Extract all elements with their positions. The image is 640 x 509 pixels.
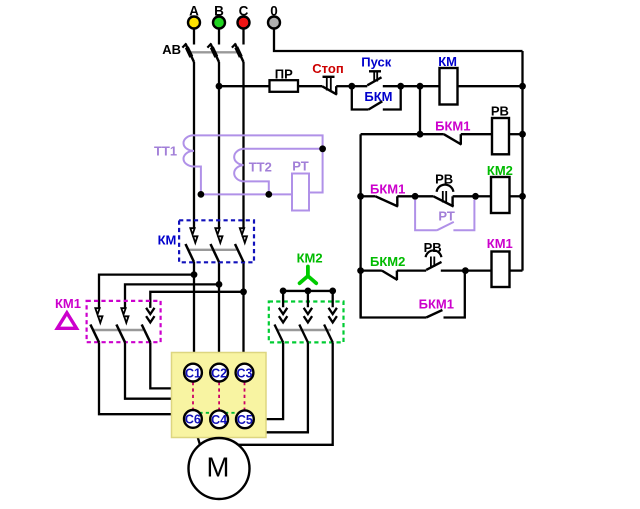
wire rung3 to KM2 coil xyxy=(476,195,492,197)
wire KM coil to rail xyxy=(458,85,523,87)
node TT1 bottom junction xyxy=(198,191,205,198)
wire rung2 left extension xyxy=(361,133,420,135)
wire stub B xyxy=(218,29,220,45)
wire KM1 coil to rail xyxy=(510,269,523,271)
terminal B xyxy=(213,4,225,29)
circuit breaker AB xyxy=(162,42,243,62)
star symbol KM2 xyxy=(297,251,323,284)
terminal C4 xyxy=(210,410,228,428)
timed contact RV rung4 xyxy=(424,240,466,271)
terminal box xyxy=(172,353,267,438)
motor M xyxy=(189,438,250,499)
wire fuse to stop xyxy=(298,85,322,87)
wire TT2 secondary bottom xyxy=(244,181,269,194)
wire KM2 pole2 to C4 xyxy=(223,342,308,432)
wire stub C xyxy=(242,29,244,45)
svg-text:БКМ1: БКМ1 xyxy=(435,119,470,134)
link C3-C5 xyxy=(244,382,246,410)
wire KM1 pole1 to C6 xyxy=(99,342,184,414)
svg-text:С2: С2 xyxy=(211,366,227,380)
wire TT1 secondary bottom xyxy=(194,167,201,195)
wire phase A vertical xyxy=(193,62,195,364)
svg-text:КМ2: КМ2 xyxy=(297,251,323,266)
node TT2 bottom junction xyxy=(265,191,272,198)
link C2-C4 xyxy=(218,382,220,410)
auxiliary contact BKM1 bypass xyxy=(361,271,465,318)
svg-text:С5: С5 xyxy=(237,413,253,427)
wire KM2 pole1 to C5 xyxy=(254,342,283,419)
wire TT2 secondary top xyxy=(244,148,323,150)
svg-text:ТТ1: ТТ1 xyxy=(154,144,177,159)
svg-text:С3: С3 xyxy=(237,366,253,380)
node left rail rung3 xyxy=(357,193,364,200)
node rung3 right of RV contact xyxy=(472,193,479,200)
wire RV coil to rail xyxy=(509,133,523,135)
terminal C6 xyxy=(184,410,202,428)
wire tap to fuse xyxy=(219,85,270,87)
wire TT1 secondary top xyxy=(194,135,323,148)
wire star bus xyxy=(283,290,333,292)
svg-text:КМ2: КМ2 xyxy=(487,163,513,178)
svg-text:С4: С4 xyxy=(211,413,227,427)
svg-text:РВ: РВ xyxy=(491,104,509,119)
wire rung1 to rung2 xyxy=(419,86,421,134)
pushbutton Start (Pusk) xyxy=(352,55,401,87)
wire neutral 0 to right rail xyxy=(274,29,523,51)
wire to KM coil xyxy=(401,85,440,87)
wire phase A to KM1 pole1 xyxy=(99,275,194,308)
node star bus pole2 xyxy=(305,288,312,295)
wire KM1 pole3 to C5 xyxy=(150,342,244,408)
terminal C5 xyxy=(236,410,254,428)
coil KM2 xyxy=(487,163,513,213)
wire PT right lead xyxy=(309,149,323,193)
timed contact RV rung3 xyxy=(415,171,475,206)
svg-text:С1: С1 xyxy=(185,366,201,380)
wire phase B vertical xyxy=(218,62,220,364)
auxiliary contact BKM1 rung3 xyxy=(361,182,416,207)
svg-text:КМ: КМ xyxy=(158,233,177,248)
terminal 0 xyxy=(268,4,280,29)
node star bus pole3 xyxy=(329,288,336,295)
node phase B tap xyxy=(216,281,223,288)
wire KM2 coil to rail xyxy=(510,195,523,197)
terminal C3 xyxy=(236,364,254,382)
coil KM1 xyxy=(487,236,513,287)
contactor KM1 delta contacts xyxy=(55,296,161,342)
thermal relay coil PT xyxy=(292,159,309,211)
node star bus pole1 xyxy=(280,288,287,295)
svg-text:М: М xyxy=(207,452,230,483)
auxiliary contact BKM1 rung2 xyxy=(420,119,492,145)
wire rung4 to KM1 coil xyxy=(465,269,491,271)
node CT junction xyxy=(319,145,326,152)
svg-text:КМ: КМ xyxy=(438,54,457,69)
svg-text:Пуск: Пуск xyxy=(361,55,391,70)
wire phase C vertical xyxy=(242,62,244,364)
wire CT secondary bus xyxy=(201,193,292,195)
svg-text:РТ: РТ xyxy=(438,209,454,224)
auxiliary contact BKM2 rung4 xyxy=(361,254,427,280)
node start right junction xyxy=(397,83,404,90)
wire stub A xyxy=(193,29,195,45)
node rung4 right xyxy=(462,267,469,274)
terminal C1 xyxy=(184,364,202,382)
wire KM1 pole2 to C4 xyxy=(125,342,216,408)
wire left rail xyxy=(359,134,361,317)
wire phase B to KM1 pole2 xyxy=(125,284,219,308)
node rung2 xyxy=(417,131,424,138)
svg-text:ТТ2: ТТ2 xyxy=(249,160,272,175)
terminal C2 xyxy=(210,364,228,382)
wire right rail xyxy=(521,51,523,271)
svg-text:КМ1: КМ1 xyxy=(55,296,81,311)
thermal contact PT xyxy=(415,200,474,231)
node rung3 left of RV contact xyxy=(412,193,419,200)
current transformer TT1 xyxy=(154,135,194,166)
current transformer TT2 xyxy=(234,149,272,182)
coil RV (time relay) xyxy=(491,104,509,155)
svg-text:БКМ1: БКМ1 xyxy=(419,296,454,311)
pushbutton Stop xyxy=(312,61,343,95)
contactor KM main contacts xyxy=(158,220,254,262)
node phase A tap xyxy=(191,271,198,278)
svg-text:С6: С6 xyxy=(185,413,201,427)
node rung1 branch xyxy=(417,83,424,90)
coil KM xyxy=(438,54,457,105)
node stop-start junction xyxy=(348,83,355,90)
node phase C tap xyxy=(240,288,247,295)
fuse PR xyxy=(270,67,299,92)
auxiliary contact BKM xyxy=(352,86,401,109)
wire phase C to KM1 pole3 xyxy=(150,292,243,308)
svg-text:Стоп: Стоп xyxy=(312,61,343,76)
node rail rung3 xyxy=(519,193,526,200)
terminal C xyxy=(238,4,250,29)
wire stop to node xyxy=(336,85,352,87)
svg-text:АВ: АВ xyxy=(162,42,181,57)
node rail rung2 xyxy=(519,131,526,138)
node left rail rung4 xyxy=(357,267,364,274)
contactor KM2 star contacts xyxy=(269,291,344,343)
node control tap xyxy=(216,83,223,90)
link C1-C6 xyxy=(192,382,194,410)
node rail rung1 xyxy=(519,83,526,90)
svg-text:БКМ: БКМ xyxy=(364,89,392,104)
link star green xyxy=(193,412,245,414)
terminal A xyxy=(188,4,200,29)
wire KM2 pole3 to motor xyxy=(195,342,333,444)
svg-text:КМ1: КМ1 xyxy=(487,236,513,251)
svg-text:БКМ1: БКМ1 xyxy=(370,182,405,197)
svg-text:РТ: РТ xyxy=(292,159,308,174)
svg-text:БКМ2: БКМ2 xyxy=(370,254,405,269)
